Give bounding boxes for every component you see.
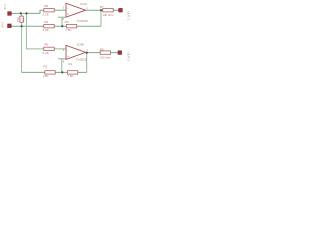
svg-text:R6: R6 (65, 20, 69, 24)
svg-text:15K: 15K (16, 16, 20, 22)
wire: output 1 rail (86, 9, 119, 11)
pad OUT1 (118, 8, 122, 12)
svg-text:R7: R7 (100, 5, 104, 9)
svg-text:-: - (67, 6, 68, 10)
wire: op2 lower pin stub (58, 58, 66, 60)
svg-text:R3: R3 (44, 20, 48, 24)
svg-text:-: - (67, 49, 68, 53)
wire: R8 to op-amp input (54, 9, 66, 11)
svg-text:OUT 1: OUT 1 (126, 11, 130, 20)
wire: top rail from IN1 pad (11, 10, 44, 13)
resistor R6 feedback ch1 (66, 25, 76, 28)
svg-text:7.5K: 7.5K (67, 74, 74, 78)
wire: bottom rail y=72.4 (22, 71, 87, 73)
wire: vertical B x=26.4 with corner to R5 (26, 13, 66, 49)
junction dot (21, 25, 23, 27)
wire: pad IN2 rail y=26.2 (12, 25, 102, 27)
junction dot (86, 52, 88, 54)
pad IN2 (7, 24, 11, 28)
op-amp U1 (IC4A) (66, 3, 86, 17)
junction dot (61, 71, 63, 73)
svg-text:TL082D: TL082D (76, 57, 88, 61)
svg-text:100 ohm: 100 ohm (100, 56, 112, 60)
svg-text:IC4A: IC4A (80, 2, 88, 6)
svg-text:100 ohm: 100 ohm (102, 13, 114, 17)
svg-text:R8: R8 (44, 4, 48, 8)
wire: feedback riser ch2 (86, 53, 88, 73)
capacitor-resistor R4 vertical (20, 16, 23, 22)
resistor R3 (44, 25, 54, 28)
wire: op1 lower pin stub (58, 16, 66, 18)
svg-text:IN 1: IN 1 (3, 4, 7, 10)
resistor R2 (45, 71, 55, 74)
resistor R8 (44, 9, 54, 12)
svg-text:2.2K: 2.2K (42, 28, 49, 32)
svg-text:OUT 2: OUT 2 (127, 52, 130, 61)
svg-text:2.2K: 2.2K (42, 51, 49, 55)
svg-text:R1: R1 (68, 62, 72, 66)
junction dot (61, 25, 63, 27)
svg-text:+: + (67, 55, 69, 59)
svg-text:1.5K: 1.5K (65, 28, 72, 32)
resistor R7 output ch1 (103, 9, 113, 12)
wire: output 2 rail (86, 52, 118, 54)
wire: riser from op2 lower stub (61, 59, 63, 73)
resistor R1 feedback ch2 (67, 71, 77, 74)
svg-text:R4: R4 (21, 18, 25, 22)
background (0, 0, 130, 79)
wire: riser from op1 lower stub (61, 17, 63, 26)
svg-text:R9: R9 (100, 47, 104, 51)
wire: feedback riser to output ch1 (100, 10, 102, 26)
junction dot (25, 12, 27, 14)
svg-text:R2: R2 (43, 65, 47, 69)
svg-text:2.2K: 2.2K (42, 12, 49, 16)
pad IN1 (7, 11, 11, 15)
junction dot (100, 9, 102, 11)
pad OUT2 (118, 51, 122, 55)
svg-text:TL082D: TL082D (77, 19, 89, 23)
junction dot (20, 12, 22, 14)
svg-text:R5: R5 (44, 43, 48, 47)
svg-text:IN 2: IN 2 (0, 22, 4, 28)
svg-text:+: + (67, 13, 69, 17)
svg-text:15K: 15K (43, 74, 49, 78)
svg-text:IC4B: IC4B (77, 42, 84, 46)
op-amp U2 (IC4B) (66, 45, 86, 59)
resistor R5 (44, 47, 54, 50)
resistor R9 output ch2 (100, 51, 110, 54)
wire: vertical A x=21.6 (21, 13, 23, 72)
